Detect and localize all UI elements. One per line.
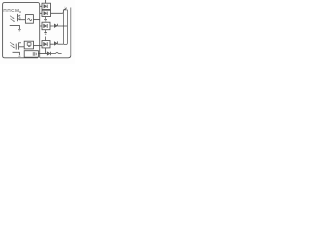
box U1 top filter — [40, 0, 51, 10]
wire frame left+top — [3, 3, 39, 58]
lamp loop top hook — [63, 7, 67, 13]
stub U4 down — [45, 48, 47, 54]
svg-text:а: а — [19, 10, 21, 14]
ground under VT1 — [18, 29, 21, 31]
box U2 second filter — [40, 10, 63, 21]
wire frame right — [70, 8, 72, 56]
box A2 bottom amp — [24, 41, 42, 49]
ground under U2 — [44, 17, 47, 21]
phototransistor VT1 — [10, 14, 26, 31]
wire VT1 to box A1 — [20, 19, 26, 21]
phototransistor VT1 arrows — [10, 16, 14, 21]
svg-text:ППСМ: ППСМ — [3, 8, 19, 13]
thyristor VS1 row2 — [54, 24, 67, 28]
box B1 bottom wide — [24, 51, 61, 58]
wire A1 to bus — [33, 19, 39, 21]
wire right verticals (lamp loop) — [63, 10, 67, 45]
box U3 middle filter — [40, 22, 54, 34]
thyristor VS2 row3 — [54, 41, 63, 45]
wire VT1 lower lead — [10, 25, 20, 29]
stub above U4 — [45, 37, 47, 41]
box U4 row3 filter — [42, 37, 54, 48]
photocell B2 arrows — [10, 42, 14, 47]
diode VD3 — [47, 52, 50, 55]
box A1 amplifier — [25, 15, 39, 24]
node junction row2/left vertical — [63, 25, 64, 26]
fuse hump on output wire — [56, 52, 59, 53]
wire frame bottom — [40, 55, 71, 58]
wire B1 output — [38, 53, 47, 55]
photocell B2 — [13, 42, 25, 56]
wire A2 to U4 — [34, 45, 43, 47]
wire bus vertical — [39, 3, 40, 58]
ground under U3 — [44, 30, 47, 34]
